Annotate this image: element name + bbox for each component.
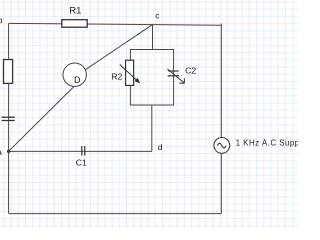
svg-text:C2: C2 <box>185 65 196 75</box>
svg-text:C1: C1 <box>76 158 87 168</box>
svg-text:c: c <box>155 11 160 21</box>
wire diagonal detector to c <box>80 25 153 74</box>
svg-text:b: b <box>0 15 3 25</box>
svg-text:D: D <box>74 75 81 85</box>
wire c down to parallel box <box>152 25 154 50</box>
wire bottom horizontal <box>9 213 222 215</box>
svg-text:R2: R2 <box>111 72 122 82</box>
wire left vertical b-a-bottom <box>8 23 10 213</box>
AC sine symbol <box>217 143 226 148</box>
variable capacitor C2 plates <box>168 70 178 72</box>
junction node a dot <box>7 150 10 153</box>
C2 arrow with open head <box>167 69 184 83</box>
capacitor C1 plates <box>81 146 83 156</box>
resistor (left branch, unlabeled) <box>4 60 13 84</box>
svg-text:R1: R1 <box>69 6 81 17</box>
AC source circle <box>214 138 230 154</box>
resistor R1 <box>62 20 87 28</box>
wire box bottom to d <box>151 105 153 152</box>
wire right vertical (supply branch) <box>220 24 222 214</box>
R2 arrow <box>120 65 138 82</box>
parallel box outline (R2 / C2 branches) <box>130 50 173 106</box>
svg-text:a: a <box>0 147 2 157</box>
capacitor (left branch, unlabeled) plates <box>2 116 15 118</box>
detector D circle <box>63 63 86 86</box>
wire a-d horizontal <box>9 150 152 152</box>
svg-text:d: d <box>158 142 163 152</box>
variable resistor R2 <box>126 60 134 85</box>
svg-text:1 KHz A.C Supply: 1 KHz A.C Supply <box>236 139 298 148</box>
wire diagonal a to detector <box>9 85 76 152</box>
wire b-c-top-right (top horizontal) <box>9 23 222 25</box>
